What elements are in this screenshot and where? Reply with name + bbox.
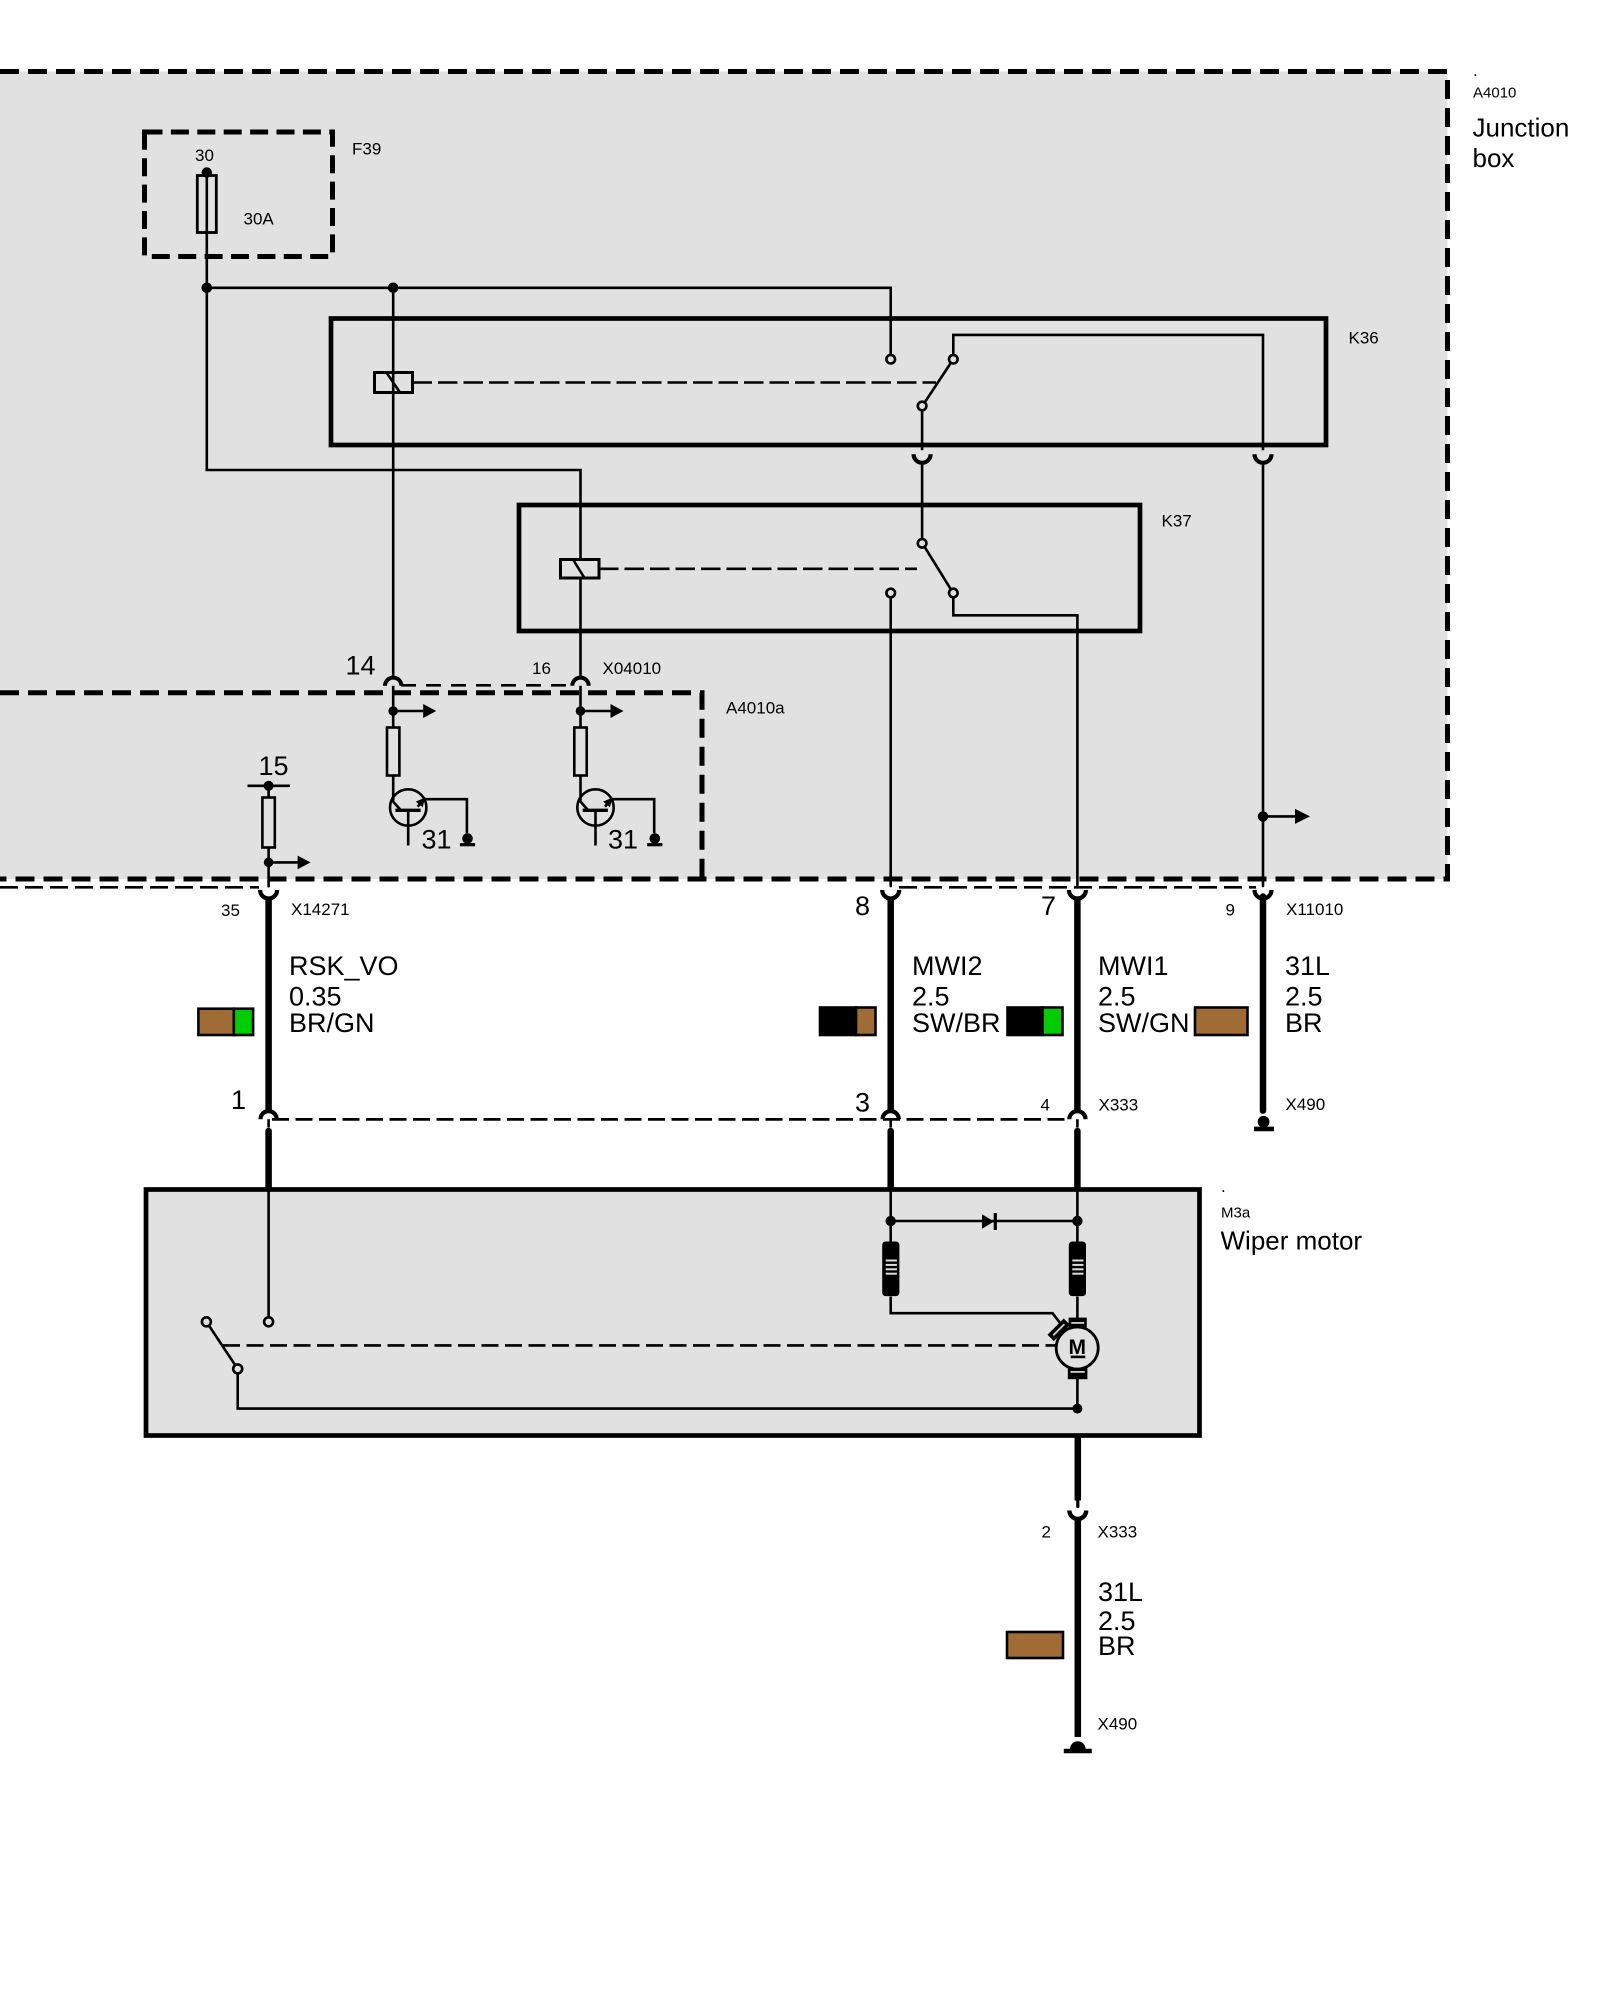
wire 7->4 (MWI1) [1074, 897, 1081, 1112]
connector X333 pin 2 cup [1069, 1511, 1086, 1519]
X333 pin 2 labels [1042, 1523, 1138, 1542]
relay K37 common contact C4 [918, 539, 927, 548]
svg-text:.: . [1473, 61, 1478, 80]
K36 plug cup (pin 9 path) [1255, 454, 1272, 463]
ground 31 (Q1) [462, 833, 473, 844]
relay K36 switch arm [925, 363, 951, 402]
top brush [1069, 1318, 1087, 1328]
resistor R16 [574, 728, 586, 776]
colour box BR (bottom) [1007, 1632, 1063, 1658]
X04010 labels [346, 651, 662, 681]
X333 pin 2 tip [1076, 1501, 1079, 1507]
wire 9->X490 (31L) [1260, 897, 1267, 1111]
wire label 31L (top) [1285, 951, 1330, 1038]
wire: K37 C5 down-right-down to X11010 pin 7 [953, 597, 1077, 886]
svg-text:7: 7 [1041, 891, 1056, 921]
module A4010a dashed border [0, 693, 702, 877]
colour box BR (top) [1195, 1008, 1248, 1036]
svg-text:31L: 31L [1285, 951, 1330, 981]
relay K36 coil-to-contact dashed link [413, 381, 937, 384]
connector X14271 pin 35 cup [260, 890, 277, 899]
svg-text:MWI1: MWI1 [1098, 951, 1169, 981]
relay K37 contact C5 [949, 589, 958, 598]
svg-text:31L: 31L [1098, 1577, 1143, 1607]
svg-text:box: box [1473, 143, 1515, 173]
svg-text:SW/GN: SW/GN [1098, 1008, 1190, 1038]
svg-text:0.35: 0.35 [289, 981, 342, 1011]
connector X11010 dashed line [899, 886, 1256, 889]
connector X14271 dashed line [0, 886, 259, 889]
connector X11010 pin 9 cup [1255, 890, 1272, 899]
svg-text:15: 15 [259, 751, 289, 781]
wire: pin 14 into module [392, 686, 395, 728]
wire: fuse output down and across to K37 coil [207, 173, 581, 560]
colour box SW/BR [820, 1008, 876, 1036]
fuse F39 labels [195, 140, 381, 229]
svg-text:X04010: X04010 [603, 659, 662, 678]
svg-text:MWI2: MWI2 [912, 951, 983, 981]
junction box A4010 dashed border [0, 72, 1448, 880]
node A4010 label [1473, 61, 1570, 173]
wire: K37 C6 down to X11010 pin 8 [889, 597, 892, 886]
ground 31 (Q2) [650, 833, 661, 844]
svg-text:14: 14 [346, 651, 376, 681]
svg-text:2: 2 [1042, 1523, 1051, 1542]
X11010 labels [855, 891, 1343, 921]
relay K37 switch arm [925, 547, 951, 589]
svg-text:35: 35 [221, 901, 240, 920]
junction + signal arrow (pin 16) [576, 706, 586, 716]
svg-text:.: . [1221, 1177, 1226, 1196]
wire: K36 to X11010 pin 9 [1262, 462, 1265, 886]
left brush [1047, 1318, 1070, 1341]
relay K36 pivot contact C3 [918, 402, 927, 411]
relay K36 coil [375, 373, 413, 393]
svg-text:30A: 30A [244, 210, 275, 229]
svg-text:Junction: Junction [1473, 113, 1570, 143]
wire: pin 4 to choke [1076, 1189, 1079, 1242]
svg-text:1: 1 [231, 1085, 246, 1115]
svg-text:SW/BR: SW/BR [912, 1008, 1001, 1038]
connector X04010 pin 14 cup [385, 678, 401, 686]
park switch fixed contact (pin 1) [264, 1317, 273, 1326]
svg-text:X333: X333 [1098, 1523, 1138, 1542]
park switch fixed contact (open) [202, 1317, 211, 1326]
connector X11010 pin 7 cup [1069, 890, 1086, 899]
X333 labels [231, 1085, 1138, 1118]
colour box BR/GN [198, 1009, 253, 1035]
junction dot bottom rail [1072, 1404, 1082, 1414]
wire: motor to bottom rail [1076, 1376, 1079, 1409]
svg-text:M: M [1068, 1336, 1086, 1359]
svg-text:X14271: X14271 [291, 900, 350, 919]
connector X333 pin 4 [1069, 1111, 1085, 1119]
svg-text:BR: BR [1098, 1631, 1136, 1661]
wire label MWI1 [1098, 951, 1190, 1038]
terminal 15 bar [248, 784, 291, 787]
connector X333 pin 1 [261, 1111, 277, 1119]
wire: resistor to transistor [392, 776, 395, 801]
wiper motor M3a box [146, 1190, 1200, 1436]
wire: terminal 15 to resistor [267, 786, 270, 798]
relay K37 box [519, 505, 1140, 631]
svg-text:A4010a: A4010a [726, 699, 785, 718]
svg-text:K37: K37 [1162, 512, 1192, 531]
svg-text:2.5: 2.5 [912, 981, 950, 1011]
X14271 labels [221, 900, 350, 920]
M3a labels [1221, 1177, 1363, 1256]
relay K37 coil-to-contact dashed link [599, 567, 917, 570]
park switch arm [209, 1326, 235, 1366]
junction + signal arrow (pin 35) [264, 858, 274, 868]
wire label 31L (bottom) [1098, 1577, 1143, 1661]
svg-text:3: 3 [855, 1088, 870, 1118]
relay K36 contact C2 [949, 355, 958, 364]
wire: pin 3 to choke [889, 1189, 892, 1242]
svg-text:4: 4 [1041, 1096, 1050, 1115]
svg-text:31: 31 [422, 825, 452, 855]
junction at K36 coil branch [388, 283, 399, 294]
wire: K36 pivot to K37 common [921, 462, 924, 539]
svg-text:X490: X490 [1286, 1095, 1326, 1114]
relay K37 contact C6 [886, 589, 895, 598]
junction box A4010 (gray area) [0, 72, 1448, 880]
relay K36 contact C1 (from feed) [886, 355, 895, 364]
svg-text:X490: X490 [1098, 1715, 1138, 1734]
wire: Q2 collector to ground [612, 799, 654, 833]
junction below fuse [202, 283, 213, 294]
connector X04010 dashed line [401, 684, 572, 687]
svg-text:F39: F39 [352, 140, 381, 159]
svg-text:X11010: X11010 [1286, 900, 1343, 919]
mechanical dashed link to motor [223, 1344, 1056, 1347]
wire 35->1 (RSK_VO) [265, 897, 272, 1112]
junction + arrow on pin 9 wire [1258, 811, 1268, 821]
fuse F39 element [197, 176, 216, 233]
wire: Q1 collector to ground [425, 799, 467, 833]
diode bridge wire [891, 1220, 1078, 1223]
wire: feed bus to K36 contact C1 [207, 288, 891, 355]
svg-text:K36: K36 [1349, 329, 1379, 348]
choke L2 (pin 4 side) [1069, 1242, 1086, 1297]
transistor Q2 [577, 789, 613, 825]
svg-text:X333: X333 [1099, 1096, 1139, 1115]
svg-text:RSK_VO: RSK_VO [289, 951, 399, 981]
choke L1 (pin 3 side) [882, 1242, 899, 1297]
svg-text:30: 30 [195, 146, 214, 165]
wire: K36 C2 up-over-down to pin 9 exit [953, 335, 1263, 450]
wire: pin 1 to park contact [267, 1189, 270, 1317]
wire: K36 pivot down to box edge [921, 410, 924, 450]
connector X11010 pin 8 cup [882, 890, 899, 899]
wire: resistor to transistor [579, 776, 582, 801]
wire 8->3 (MWI2) [887, 897, 894, 1112]
svg-text:2.5: 2.5 [1285, 981, 1323, 1011]
motor M symbol [1056, 1327, 1098, 1369]
transistor Q1 [390, 789, 426, 825]
wire: motor to X333 pin 2 [1075, 1436, 1082, 1501]
K36 plug cup (pivot) [914, 454, 931, 463]
svg-text:BR/GN: BR/GN [289, 1008, 375, 1038]
svg-text:BR: BR [1285, 1008, 1323, 1038]
ground X490 (right) [1258, 1116, 1270, 1128]
connector X04010 pin 16 cup [572, 678, 588, 686]
wire 2->X490 (31L) [1075, 1517, 1082, 1737]
relay K37 coil [561, 560, 600, 579]
svg-text:9: 9 [1226, 901, 1235, 920]
wire: K36 coil branch down to X04010 pin 14 [392, 288, 395, 678]
bottom brush [1068, 1368, 1088, 1379]
connector X333 dashed line [272, 1118, 1070, 1121]
wire label RSK_VO [289, 951, 399, 1038]
wire label MWI2 [912, 951, 1001, 1038]
junction dots at diode wire [886, 1216, 896, 1226]
wire: choke L2 to top brush [1076, 1297, 1079, 1320]
wire: pin 16 into module [579, 686, 582, 728]
connector X333 pin 3 [883, 1111, 899, 1119]
resistor R14 [387, 728, 399, 776]
wire: resistor to X14271 pin 35 [267, 848, 270, 887]
fuse F39 terminal 30 dot [202, 167, 212, 177]
diode D1 [982, 1214, 994, 1228]
svg-text:M3a: M3a [1221, 1205, 1251, 1222]
wire: choke L1 to left brush [891, 1297, 1061, 1324]
svg-text:Wiper motor: Wiper motor [1221, 1226, 1363, 1256]
svg-text:8: 8 [855, 891, 870, 921]
svg-text:2.5: 2.5 [1098, 981, 1136, 1011]
ground X490 (bottom) [1070, 1741, 1086, 1749]
wire: K37 coil down to X04010 pin 16 [579, 578, 582, 677]
colour box SW/GN [1008, 1008, 1063, 1036]
relay K36 box [331, 319, 1326, 446]
junction + signal arrow (pin 14) [388, 706, 398, 716]
park switch pivot [233, 1364, 242, 1373]
resistor R15 [262, 798, 274, 848]
fuse F39 dashed box [145, 132, 333, 257]
svg-text:16: 16 [532, 659, 551, 678]
svg-text:31: 31 [608, 825, 638, 855]
svg-text:A4010: A4010 [1473, 85, 1516, 102]
wire: pivot to bottom rail [238, 1374, 1078, 1409]
